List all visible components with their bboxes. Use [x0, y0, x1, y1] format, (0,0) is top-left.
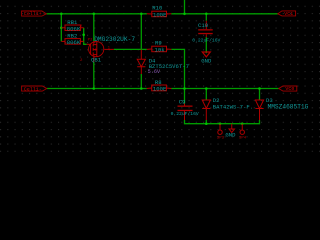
- flag VC0: [279, 86, 297, 91]
- junction RB right pins: [82, 34, 85, 37]
- diode D3 zener: [255, 100, 263, 120]
- junction top rail / mid branch: [140, 13, 143, 16]
- stubs: [93, 44, 97, 46]
- junction bottom rail / R9-C9: [183, 87, 186, 90]
- svg-text:VC0: VC0: [285, 86, 294, 92]
- wire C9 to lower rail: [185, 120, 260, 124]
- flag VC1: [278, 11, 296, 16]
- flag Cell1+: [22, 11, 47, 16]
- svg-text:5.6V: 5.6V: [148, 69, 161, 75]
- wire R9 right to corner down: [171, 49, 184, 88]
- wire bottom rail right of R8: [171, 88, 278, 90]
- svg-text:0.22uF/16V: 0.22uF/16V: [192, 38, 220, 44]
- svg-text:GND: GND: [201, 58, 212, 65]
- wire C10 branch: [205, 14, 207, 21]
- capacitor C10: [198, 21, 213, 37]
- wire bottom rail left of R8: [47, 88, 147, 90]
- transistor QB1 arrow: [94, 48, 96, 50]
- wire vertical offscreen at x=184.5: [184, 0, 186, 14]
- svg-text:VC1: VC1: [284, 11, 293, 17]
- resistor RB2: [61, 39, 83, 45]
- diode D2: [202, 100, 210, 120]
- svg-text:P2: P2: [88, 38, 93, 42]
- svg-text:806K: 806K: [67, 25, 81, 32]
- svg-text:806K: 806K: [67, 39, 81, 46]
- wire gate vertical: [84, 28, 87, 45]
- wire D2 branch: [205, 89, 207, 101]
- svg-text:BAT42WS-7-F.: BAT42WS-7-F.: [213, 103, 253, 110]
- svg-text:QB1: QB1: [91, 57, 102, 64]
- transistor QB1: [87, 41, 114, 62]
- junction bottom rail / QB1 source: [93, 87, 96, 90]
- junction gnd net / D2: [205, 122, 208, 125]
- junction bottom rail / D3: [258, 87, 261, 90]
- junction gnd net / pin P4: [241, 122, 244, 125]
- ground GND (bottom): [229, 124, 235, 133]
- junction bottom rail / D4 cathode: [140, 87, 143, 90]
- wire C9 branch: [184, 89, 186, 104]
- gate pin line: [87, 43, 91, 45]
- svg-text:0.22uF/16V: 0.22uF/16V: [171, 111, 199, 117]
- channel bar dashes: [92, 44, 94, 47]
- svg-text:3P3: 3P3: [217, 137, 225, 141]
- pin circle P3: [218, 124, 222, 135]
- flag Cell1-: [22, 86, 47, 91]
- junction top rail / offscreen vertical: [183, 13, 186, 16]
- svg-text:DMG2302UK-7: DMG2302UK-7: [94, 36, 135, 43]
- resistor R8: [147, 85, 172, 91]
- svg-text:GND: GND: [225, 132, 236, 139]
- wire C10 to gnd: [205, 37, 207, 53]
- pin circle P4: [240, 124, 244, 135]
- junction bottom rail / D2: [205, 87, 208, 90]
- wire QB1 drain top: [93, 14, 95, 41]
- junction top rail / RB branch: [60, 13, 63, 16]
- svg-text:Cell1+: Cell1+: [24, 11, 42, 17]
- wire top rail right of R10: [171, 13, 278, 15]
- wire QB1 source bottom: [93, 62, 95, 89]
- svg-text:Cell1-: Cell1-: [24, 86, 42, 92]
- svg-text:10k: 10k: [155, 46, 166, 53]
- wire D4 bottom: [140, 74, 142, 89]
- wire top rail left of R10: [46, 13, 147, 15]
- wire RB branch vertical: [60, 14, 62, 42]
- junction top rail / QB1 drain: [93, 13, 96, 16]
- ground GND (C10): [202, 52, 210, 57]
- svg-text:C10: C10: [198, 22, 209, 29]
- svg-text:MMSZ4685T1G: MMSZ4685T1G: [268, 103, 309, 110]
- top pin inside: [96, 42, 98, 45]
- svg-text:C9: C9: [179, 98, 186, 105]
- resistor RB1: [61, 25, 83, 31]
- svg-text:100E: 100E: [153, 11, 167, 18]
- capacitor C9: [178, 104, 193, 121]
- drain pin right: [104, 48, 114, 50]
- bottom pin inside: [96, 55, 98, 57]
- wire mid (drain to R9): [114, 48, 147, 50]
- wire D2 bottom: [205, 120, 207, 124]
- inner D-S bar: [96, 45, 98, 55]
- gate bar: [90, 44, 92, 55]
- svg-text:100E: 100E: [153, 85, 167, 92]
- junction RB1 left pin: [60, 26, 63, 29]
- resistor R10: [147, 11, 172, 17]
- diode D4 zener: [137, 49, 145, 74]
- wire vertical top rail to mid at x=141.3: [140, 14, 142, 50]
- svg-text:3P4: 3P4: [239, 137, 247, 141]
- wire D3 branch: [259, 89, 261, 101]
- junction top rail / C10 branch: [205, 13, 208, 16]
- resistor R9: [147, 46, 172, 52]
- junction gnd net / pin P3: [219, 122, 222, 125]
